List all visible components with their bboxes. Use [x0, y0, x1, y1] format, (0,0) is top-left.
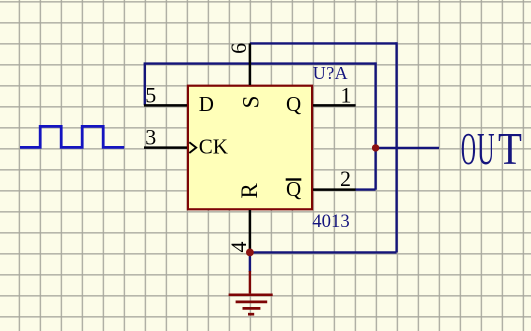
- svg-text:R: R: [237, 182, 262, 198]
- svg-text:6: 6: [226, 43, 251, 54]
- svg-text:2: 2: [340, 166, 351, 191]
- svg-text:CK: CK: [199, 135, 228, 159]
- svg-text:3: 3: [145, 125, 156, 150]
- svg-text:5: 5: [145, 83, 156, 108]
- svg-text:4013: 4013: [312, 211, 349, 232]
- svg-text:U: U: [477, 124, 494, 174]
- svg-text:Q: Q: [286, 92, 301, 116]
- svg-text:4: 4: [226, 242, 251, 253]
- svg-text:D: D: [199, 92, 214, 116]
- svg-text:S: S: [238, 96, 263, 109]
- svg-text:1: 1: [341, 83, 352, 108]
- svg-text:U?A: U?A: [313, 63, 348, 83]
- svg-text:T: T: [498, 125, 522, 175]
- svg-text:O: O: [461, 123, 476, 174]
